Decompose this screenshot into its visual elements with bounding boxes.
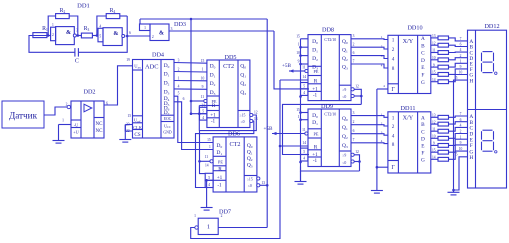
svg-text:19: 19 [126, 58, 130, 62]
svg-text:1: 1 [392, 38, 395, 44]
svg-text:11: 11 [201, 95, 205, 99]
svg-text:G: G [421, 157, 425, 163]
svg-text:B: B [421, 122, 425, 128]
wire +5V to DD9 PE [272, 132, 305, 135]
svg-text:&: & [66, 30, 71, 36]
upper 7-segment digit [482, 52, 497, 75]
svg-text:C: C [421, 129, 425, 135]
wire DD4.D4 to DD6.D0 [174, 92, 213, 143]
chip label DD9 [321, 103, 333, 110]
svg-text:1: 1 [62, 119, 64, 123]
chip label DD11 [401, 105, 416, 112]
chip label DD12 [484, 23, 499, 30]
resistor network DD10 to DD12 segment lines [431, 36, 468, 84]
decoder DD11 body [388, 112, 431, 173]
svg-text:≥15: ≥15 [247, 177, 253, 181]
wire DD3 pin1 from top rail [139, 19, 141, 24]
svg-text:-1: -1 [313, 158, 318, 164]
DD9 +1 pin [301, 148, 322, 158]
svg-text:CS: CS [134, 132, 140, 138]
DD5 -1 pin [200, 114, 216, 125]
svg-text:-U: -U [74, 123, 78, 128]
wire DD6 ground tap [205, 179, 208, 182]
wire DD3 output to DD8 +1 [274, 31, 309, 89]
ground under DD6 [201, 180, 213, 210]
wire gate DD1.2 output to DD3 input [126, 35, 151, 37]
output bubble of DD1.2 [122, 35, 125, 38]
svg-text:1: 1 [144, 26, 146, 30]
svg-text:5: 5 [456, 76, 458, 80]
wire DD2 ground pin [59, 119, 72, 125]
svg-text:2: 2 [52, 33, 54, 37]
svg-text:4: 4 [99, 24, 101, 28]
svg-text:X/Y: X/Y [403, 114, 414, 121]
logic gate DD1.1 (NAND as inverter) [51, 23, 79, 44]
chip label DD8 [322, 26, 334, 33]
svg-text:2: 2 [460, 130, 462, 134]
svg-text:D: D [421, 136, 425, 142]
wire DD10 gate pin to ground rail [377, 84, 388, 89]
svg-text:DD11: DD11 [401, 105, 416, 112]
DD12 lower H pin to ground [452, 153, 467, 192]
svg-text:2: 2 [178, 67, 180, 71]
svg-text:6: 6 [460, 43, 462, 47]
wire clock gate net vertical right [266, 19, 268, 228]
svg-text:12: 12 [254, 111, 258, 115]
svg-text:X/Y: X/Y [403, 38, 414, 45]
wire clock net vertical [190, 19, 192, 114]
DD10 output pin numbers [432, 34, 436, 82]
DD8 grounded input stubs [299, 39, 308, 66]
wire DD4 CLK,CS to ground [125, 125, 132, 132]
svg-text:-1: -1 [211, 119, 216, 125]
svg-text:4: 4 [303, 91, 305, 95]
DD5 PE pin [201, 95, 220, 106]
wire sensor to DD2 input [44, 107, 67, 115]
DD8 R pin [302, 75, 321, 85]
DD6 input labels [207, 138, 222, 156]
svg-text:F: F [421, 150, 424, 156]
svg-text:PE: PE [314, 69, 319, 74]
svg-text:≤0: ≤0 [248, 184, 252, 188]
svg-text:3: 3 [353, 111, 355, 115]
svg-text:DD3: DD3 [174, 21, 186, 28]
svg-text:≤0: ≤0 [342, 95, 346, 99]
capacitor C [75, 48, 79, 64]
svg-text:CT2/10: CT2/10 [324, 113, 336, 117]
svg-text:9: 9 [460, 141, 462, 145]
svg-text:4: 4 [392, 57, 395, 63]
svg-text:NC: NC [96, 122, 104, 127]
svg-text:C: C [421, 51, 425, 57]
svg-text:6: 6 [353, 51, 355, 55]
svg-text:8: 8 [392, 142, 395, 148]
svg-text:1: 1 [178, 76, 180, 80]
wire clock net to DD5 +1 [190, 112, 200, 115]
svg-text:3: 3 [171, 27, 173, 31]
wire DD9 carry loop to ground rail [301, 155, 361, 171]
DD9 output labels [342, 116, 348, 149]
svg-text:A: A [421, 36, 425, 42]
counter DD6 body [213, 137, 257, 192]
resistor R2 (feedback of gate 1) [56, 8, 70, 19]
output bubble of DD1.1 [73, 34, 76, 37]
DD6 -1 pin [205, 180, 222, 188]
counter DD5 body [207, 60, 250, 128]
svg-text:11: 11 [302, 128, 306, 132]
sensor box (Датчик) [2, 101, 44, 128]
DD9 -1 pin [301, 155, 318, 165]
svg-text:H: H [469, 155, 473, 161]
DD8 +1 pin [301, 83, 322, 93]
DD9 carry outputs [339, 150, 359, 165]
svg-text:4: 4 [208, 183, 210, 187]
svg-text:B: B [421, 43, 425, 49]
DD12 upper H pin to ground [454, 76, 468, 192]
DD9 R pin [302, 141, 321, 151]
svg-text:5: 5 [99, 34, 101, 38]
svg-text:DD4: DD4 [152, 52, 164, 59]
svg-text:F: F [470, 143, 473, 149]
wire top rail (clock gate net) [140, 18, 267, 20]
svg-text:3: 3 [178, 58, 180, 62]
svg-text:6: 6 [460, 118, 462, 122]
svg-text:DD1: DD1 [77, 3, 90, 10]
wire DD6 borrow down to DD7 right pin [218, 227, 267, 229]
DD5 input labels [210, 64, 216, 96]
DD4 output labels D0-D7 [164, 63, 170, 116]
DD6 output labels [247, 143, 253, 169]
wire R1 to gate DD1.1 input [29, 35, 51, 37]
svg-text:7: 7 [353, 138, 355, 142]
svg-text:F: F [421, 73, 424, 79]
ADC DD4 body [126, 58, 174, 138]
svg-text:PE: PE [218, 159, 223, 164]
DD11 output pin numbers [432, 114, 436, 160]
svg-text:14: 14 [302, 75, 306, 79]
wire DD4.D5 to DD6.D1 [174, 97, 213, 149]
wire DD9 R to reset rail [280, 145, 308, 147]
wire DD7 output to reset rail [191, 80, 280, 239]
chip label DD1 [77, 3, 90, 10]
svg-text:-1: -1 [313, 92, 318, 98]
node junction on top rail [190, 18, 193, 21]
inverter DD7 [194, 214, 223, 235]
svg-text:15: 15 [296, 108, 300, 112]
svg-text:15: 15 [201, 59, 205, 63]
DD8 -1 pin [301, 89, 318, 99]
svg-text:4: 4 [460, 124, 462, 128]
svg-text:DD2: DD2 [83, 89, 95, 96]
wire DD6 borrow to clock-gate net [260, 184, 269, 187]
label +5V at DD9 [264, 126, 274, 132]
DD6 carry outputs [244, 176, 265, 189]
svg-text:10: 10 [459, 71, 463, 75]
chip label DD10 [407, 24, 422, 31]
DD8 input pin numbers [296, 34, 300, 63]
svg-text:9: 9 [202, 85, 204, 89]
svg-text:2: 2 [353, 120, 355, 124]
svg-text:15: 15 [128, 114, 132, 118]
DD12 lower segment input letters [469, 114, 473, 161]
wire left branch down to capacitor C [29, 36, 75, 53]
svg-text:1: 1 [460, 135, 462, 139]
DD6 PE pin [205, 155, 226, 166]
wire +5V to DD8 PE [289, 69, 305, 72]
svg-text:1: 1 [52, 23, 54, 27]
svg-text:2: 2 [460, 54, 462, 58]
svg-text:+5В: +5В [264, 126, 274, 132]
resistor R3 [81, 26, 92, 38]
svg-text:4: 4 [392, 133, 395, 139]
wire R3 to gate DD1.2 input [92, 35, 98, 37]
svg-text:7: 7 [460, 112, 462, 116]
wire clock net to DD5 PE [190, 100, 204, 103]
svg-text:5: 5 [456, 153, 458, 157]
svg-text:5: 5 [303, 150, 305, 154]
svg-text:GND: GND [163, 131, 171, 135]
wire DD3 output [169, 30, 274, 32]
counter DD8 body [308, 35, 351, 101]
svg-text:C: C [75, 58, 79, 65]
DD5 +1 pin [200, 107, 220, 118]
feedback loop R4 over gate DD1.2 [96, 16, 129, 37]
svg-text:R: R [218, 166, 222, 172]
svg-text:≥9: ≥9 [342, 154, 346, 158]
chip label DD2 [83, 89, 95, 96]
svg-text:E: E [421, 65, 424, 71]
svg-text:10: 10 [201, 76, 205, 80]
chip label DD5 [224, 54, 236, 61]
svg-text:1: 1 [194, 214, 196, 218]
ground for display common [448, 190, 460, 195]
wire DD5 carry to DD6 +1 [200, 115, 257, 174]
DD8 output labels [342, 39, 348, 70]
svg-text:4: 4 [178, 85, 180, 89]
DD5 R pin [198, 103, 219, 130]
svg-text:7: 7 [460, 37, 462, 41]
svg-text:1: 1 [209, 145, 211, 149]
svg-text:&: & [113, 31, 118, 37]
wire DD8 carry cascade to DD9 +1 [283, 89, 363, 154]
ground for decoder gate pins [371, 190, 383, 193]
wire DD11 gate pin to ground rail [376, 166, 388, 169]
svg-text:15: 15 [207, 138, 211, 142]
svg-text:PE: PE [314, 132, 319, 137]
svg-text:C: C [469, 126, 473, 132]
svg-text:6: 6 [129, 31, 131, 35]
data bus DD4 to DD5 (D0-D3) [174, 58, 207, 89]
DD6 +1 pin [205, 173, 226, 181]
DD4 EOC pin label [161, 115, 174, 121]
svg-text:Датчик: Датчик [9, 110, 38, 120]
DD5 carry outputs [238, 111, 258, 124]
svg-text:G: G [421, 80, 425, 86]
resistor R1 [33, 26, 48, 37]
svg-text:9: 9 [460, 65, 462, 69]
svg-text:NC: NC [96, 129, 104, 134]
svg-text:≥15: ≥15 [240, 114, 246, 118]
svg-text:2: 2 [392, 47, 395, 53]
ground input rail vertical [300, 39, 302, 182]
svg-text:15: 15 [296, 34, 300, 38]
svg-text:5: 5 [208, 176, 210, 180]
svg-text:14: 14 [205, 164, 209, 168]
svg-text:4: 4 [303, 157, 305, 161]
svg-text:2: 2 [392, 124, 395, 130]
svg-text:1: 1 [202, 68, 204, 72]
label +5V at DD8 [282, 63, 292, 69]
amplifier DD2 body [66, 101, 109, 138]
svg-text:CT2/10: CT2/10 [324, 38, 336, 42]
svg-text:CT2: CT2 [229, 141, 240, 148]
svg-text:2: 2 [353, 43, 355, 47]
resistor network DD11 to DD12 segment lines [431, 112, 468, 161]
svg-text:DD8: DD8 [322, 26, 334, 33]
feedback loop R2 over gate DD1.1 [47, 16, 79, 37]
ground at DD2 [53, 125, 65, 144]
chip label DD6 [228, 130, 240, 137]
ground under DD9 [295, 171, 307, 184]
bus DD8 outputs to DD10 inputs [351, 34, 388, 68]
svg-text:1: 1 [392, 116, 395, 122]
svg-text:10: 10 [459, 147, 463, 151]
wire DD6 PE from cascade vertical [198, 160, 210, 163]
svg-text:E: E [421, 144, 424, 150]
svg-text:6: 6 [183, 97, 185, 101]
svg-text:11: 11 [302, 66, 306, 70]
svg-text:+U: +U [73, 130, 78, 135]
DD5 output labels [240, 64, 246, 96]
svg-text:CT2: CT2 [223, 63, 234, 70]
wire capacitor to DD1.2 output node [78, 16, 127, 52]
wire DD5 borrow to DD6 -1 [196, 121, 254, 188]
DD9 PE pin [302, 128, 321, 138]
svg-text:+5В: +5В [282, 63, 292, 69]
svg-text:1: 1 [298, 43, 300, 47]
svg-text:10: 10 [296, 51, 300, 55]
svg-text:DD10: DD10 [407, 24, 422, 31]
decoder DD10 body [388, 35, 431, 93]
svg-text:13: 13 [262, 181, 266, 185]
svg-text:2: 2 [152, 35, 154, 39]
svg-text:6: 6 [353, 129, 355, 133]
wire DD9 -1 stub [299, 161, 302, 164]
svg-text:Uax: Uax [134, 64, 141, 70]
DD6 R pin [205, 164, 226, 173]
wire gate DD1.1 output to R3 [77, 35, 81, 37]
svg-text:D: D [421, 58, 425, 64]
svg-text:3: 3 [353, 34, 355, 38]
svg-text:5: 5 [178, 92, 180, 96]
svg-text:≤0: ≤0 [342, 161, 346, 165]
resistor R4 (feedback of gate 2) [106, 8, 120, 19]
svg-text:CLK: CLK [133, 125, 143, 130]
chip label DD7 [219, 208, 231, 215]
node reset rail to DD9 R [279, 145, 282, 148]
DD7 output-side bubble [195, 226, 198, 229]
svg-text:9: 9 [298, 60, 300, 64]
svg-text:R: R [212, 103, 216, 109]
svg-text:12: 12 [355, 150, 359, 154]
display DD12 body [468, 30, 507, 188]
svg-text:-1: -1 [217, 183, 222, 189]
chip label DD3 [174, 21, 186, 28]
svg-text:12: 12 [355, 85, 359, 89]
svg-text:EOC: EOC [164, 117, 172, 121]
DD8 PE pin [302, 66, 321, 76]
svg-text:5: 5 [303, 85, 305, 89]
svg-text:4: 4 [202, 116, 204, 120]
svg-text:1: 1 [460, 59, 462, 63]
svg-text:7: 7 [353, 59, 355, 63]
wire DD8 -1 stub [299, 95, 302, 98]
svg-text:1: 1 [298, 115, 300, 119]
svg-text:DD12: DD12 [484, 23, 499, 30]
svg-text:≥9: ≥9 [342, 88, 346, 92]
svg-text:A: A [421, 115, 425, 121]
svg-text:8: 8 [392, 66, 395, 72]
svg-text:1: 1 [207, 224, 210, 231]
DD8 carry outputs [339, 85, 359, 99]
gate ground rail vertical [376, 89, 378, 191]
svg-text:14: 14 [302, 141, 306, 145]
wire DD2 output to ADC analog input [104, 66, 133, 105]
DD12 upper segment input letters [469, 39, 473, 84]
svg-text:11: 11 [205, 155, 209, 159]
DD9 grounded input stubs [299, 111, 308, 121]
lower 7-segment digit [482, 130, 497, 153]
svg-text:&: & [159, 31, 164, 37]
bus DD9 outputs to DD11 inputs [351, 111, 388, 144]
DD9 input labels [296, 108, 318, 126]
input bubble of DD2 [67, 105, 70, 108]
svg-text:2: 2 [221, 214, 223, 218]
ground at DD4 [119, 125, 131, 143]
DD8 input labels [312, 39, 318, 70]
svg-text:≤0: ≤0 [241, 120, 245, 124]
svg-text:ADC: ADC [145, 63, 159, 70]
svg-text:H: H [469, 78, 473, 84]
chip label DD4 [152, 52, 164, 59]
svg-text:5: 5 [202, 109, 204, 113]
logic gate DD1.2 (NAND as inverter) [98, 24, 131, 45]
svg-text:4: 4 [460, 48, 462, 52]
DD4 reference and clock pin labels [126, 114, 143, 138]
wire DD8 R to reset rail [280, 79, 308, 81]
DD4 power labels [163, 123, 171, 134]
counter DD9 body [308, 109, 351, 167]
logic gate DD3 (AND) [140, 24, 173, 41]
